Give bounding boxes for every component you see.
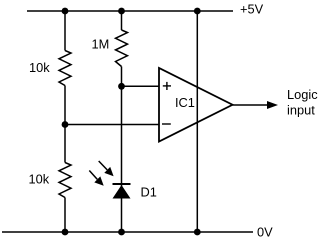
output wire xyxy=(233,104,270,106)
node bottom-right junction xyxy=(194,229,201,236)
left branch wire upper segment xyxy=(64,11,66,51)
photodiode D1 cathode bar xyxy=(113,183,131,185)
left branch wire middle segment xyxy=(64,86,66,163)
node top-right junction xyxy=(194,8,201,15)
resistor lower 10k xyxy=(59,163,71,198)
svg-text:input: input xyxy=(287,103,315,118)
left branch wire lower segment xyxy=(64,198,66,233)
resistor upper 10k xyxy=(59,51,71,86)
node top-left junction xyxy=(62,8,69,15)
non-inverting input wire xyxy=(122,85,160,87)
middle branch wire upper segment xyxy=(121,11,123,30)
photodiode D1 body xyxy=(113,185,131,199)
middle branch wire lower segment xyxy=(121,67,123,233)
svg-text:1M: 1M xyxy=(92,37,110,52)
op-amp power wire xyxy=(196,11,198,232)
D1 light arrow 2 xyxy=(89,171,103,186)
D1 light arrow 1 xyxy=(99,161,114,176)
svg-text:0V: 0V xyxy=(257,225,273,240)
node bottom-middle junction xyxy=(118,229,125,236)
0V rail wire xyxy=(2,231,253,233)
inverting input wire xyxy=(65,124,159,126)
resistor 1M xyxy=(116,30,128,67)
op-amp plus input marker xyxy=(163,82,171,90)
svg-text:10k: 10k xyxy=(29,60,50,75)
node bottom-left junction xyxy=(62,229,69,236)
svg-text:+5V: +5V xyxy=(240,2,264,17)
svg-text:10k: 10k xyxy=(29,172,50,187)
+5V rail wire xyxy=(27,10,233,12)
node top-middle junction xyxy=(118,8,125,15)
svg-text:Logic: Logic xyxy=(287,87,318,102)
output arrowhead xyxy=(267,101,278,109)
op-amp IC1 triangle xyxy=(159,68,233,142)
svg-text:D1: D1 xyxy=(141,185,157,200)
node plus-input junction xyxy=(118,83,125,90)
op-amp minus input marker xyxy=(162,123,171,125)
node minus-input junction xyxy=(62,121,69,128)
svg-text:IC1: IC1 xyxy=(175,95,195,110)
